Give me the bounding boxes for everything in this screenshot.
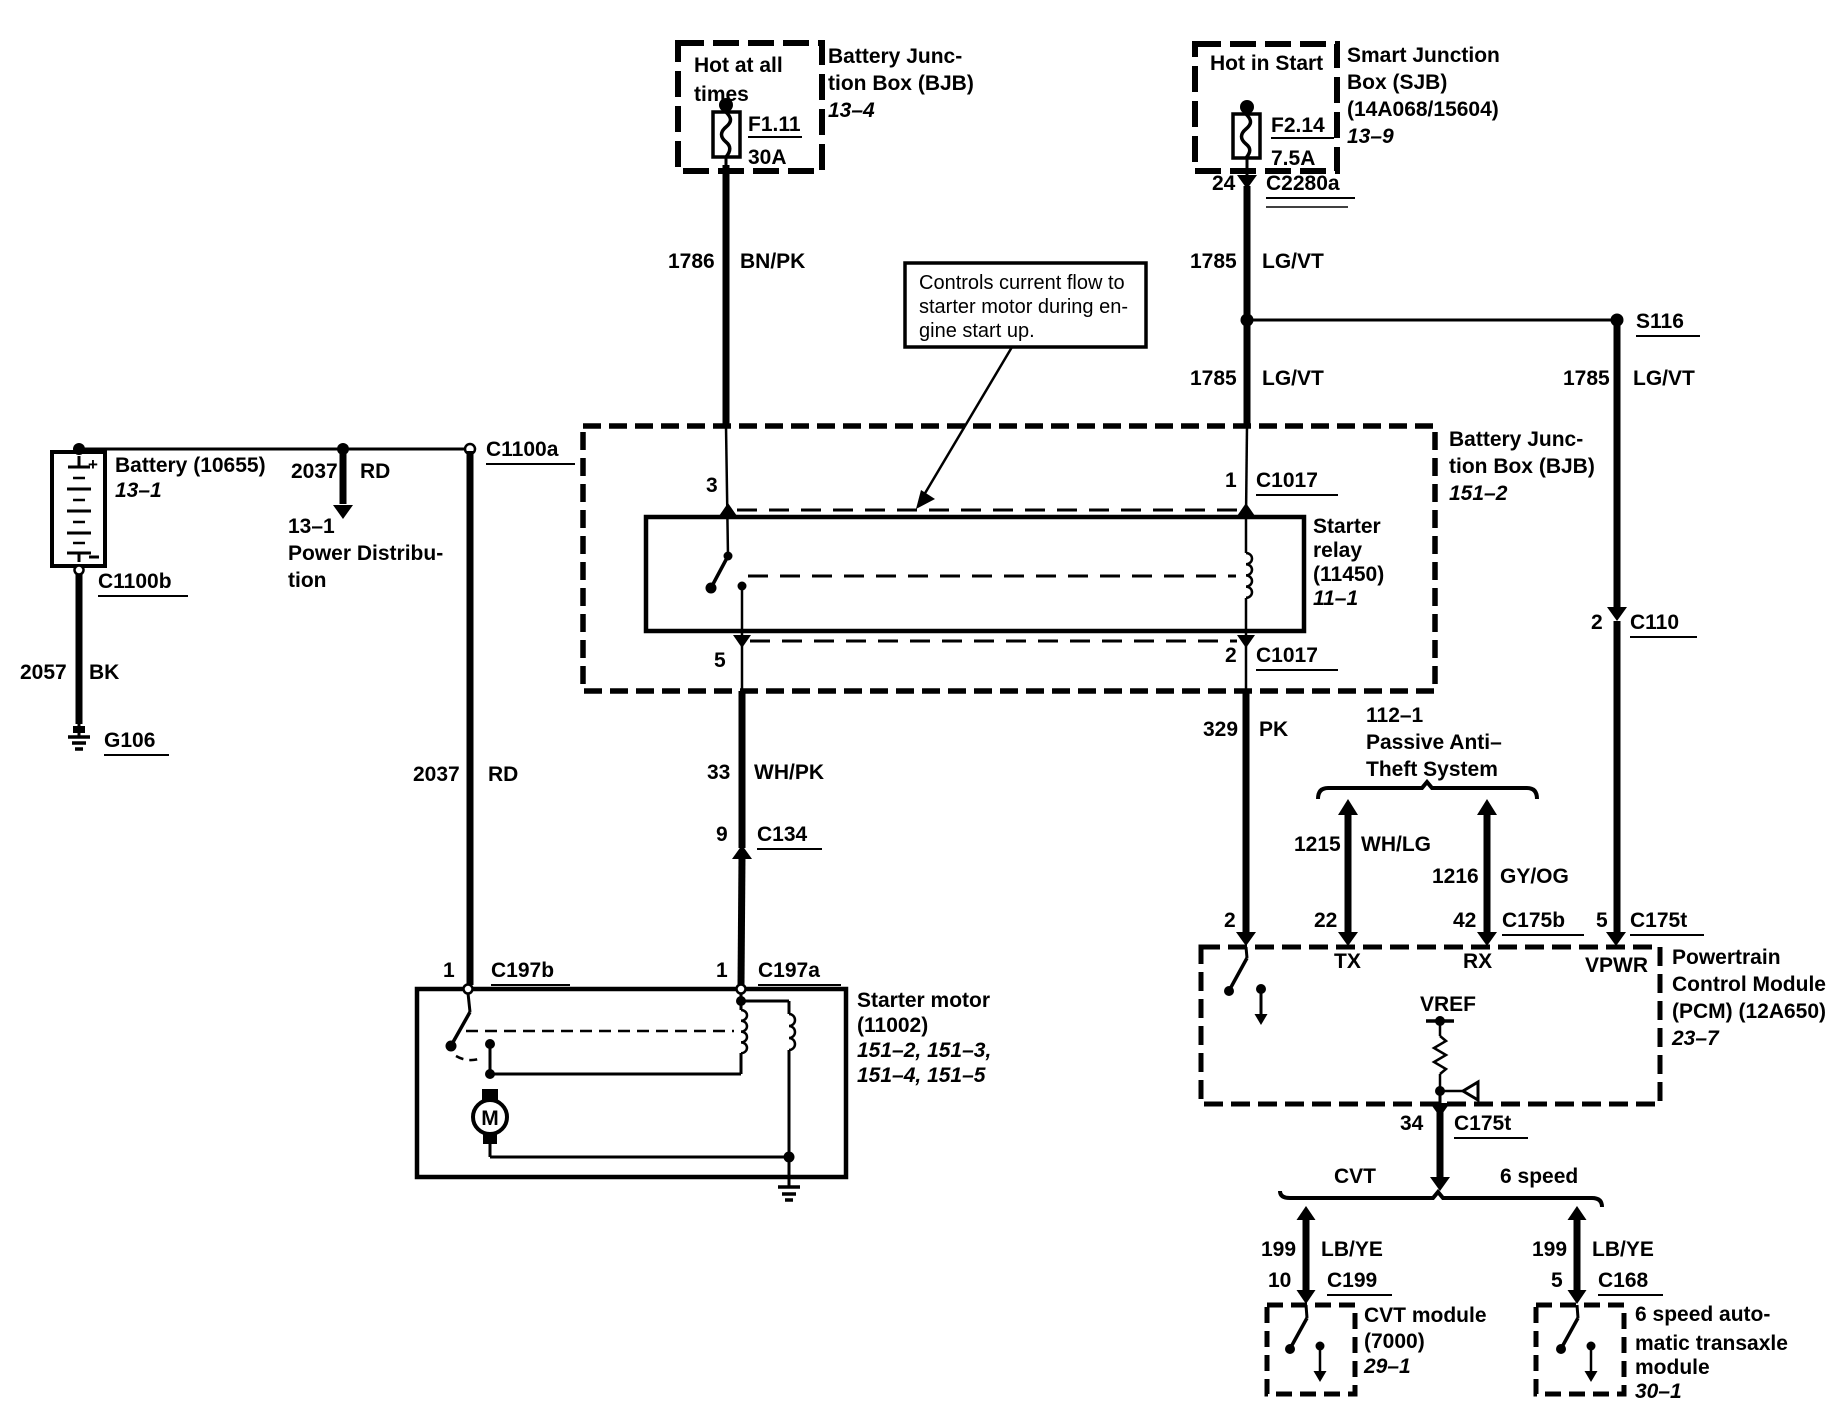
wire 33 WH/PK below BJB bbox=[739, 691, 746, 848]
svg-text:C175b: C175b bbox=[1502, 909, 1565, 932]
pin 2 arrow bbox=[1237, 635, 1255, 648]
svg-text:matic transaxle: matic transaxle bbox=[1635, 1332, 1788, 1355]
6 speed module plunger arrow bbox=[1585, 1342, 1598, 1383]
component box Battery Junction Box (BJB) 151-2 bbox=[583, 426, 1435, 691]
wire battery top horizontal to C1100a bbox=[79, 448, 470, 451]
svg-text:S116: S116 bbox=[1636, 310, 1684, 333]
svg-text:LG/VT: LG/VT bbox=[1262, 250, 1324, 273]
svg-text:RD: RD bbox=[488, 763, 518, 786]
fuse box SJB (Hot in Start) bbox=[1195, 44, 1337, 171]
VREF node bar bbox=[1426, 1019, 1454, 1023]
svg-text:2: 2 bbox=[1225, 644, 1237, 667]
svg-text:2037: 2037 bbox=[291, 460, 338, 483]
svg-text:1: 1 bbox=[443, 959, 455, 982]
svg-text:module: module bbox=[1635, 1356, 1710, 1379]
svg-text:2037: 2037 bbox=[413, 763, 460, 786]
svg-text:42: 42 bbox=[1453, 909, 1476, 932]
node battery positive junction bbox=[73, 443, 85, 455]
connector C134 pin 9 arrow bbox=[732, 845, 752, 859]
wire 1785 LG/VT C110 to PCM VPWR bbox=[1614, 621, 1621, 938]
connector C110 pin 2 arrow bbox=[1607, 607, 1627, 621]
svg-text:9: 9 bbox=[716, 823, 728, 846]
svg-text:1216: 1216 bbox=[1432, 865, 1479, 888]
dashed actuation line starter bbox=[466, 1030, 734, 1033]
pin 3 arrow bbox=[719, 503, 737, 516]
svg-text:2: 2 bbox=[1591, 611, 1603, 634]
callout note box bbox=[905, 263, 1146, 347]
wire pin 2 to BJB edge bbox=[1245, 631, 1248, 691]
svg-text:Box (SJB): Box (SJB) bbox=[1347, 71, 1447, 94]
solenoid hold-in coil bbox=[789, 1001, 795, 1157]
pin 1 arrow bbox=[1237, 503, 1255, 516]
svg-text:329: 329 bbox=[1203, 718, 1238, 741]
svg-text:Theft System: Theft System bbox=[1366, 758, 1498, 781]
svg-text:30–1: 30–1 bbox=[1635, 1380, 1682, 1403]
svg-text:2: 2 bbox=[1224, 909, 1236, 932]
resistor VREF pull-up bbox=[1434, 1021, 1446, 1091]
svg-text:+: + bbox=[88, 455, 98, 474]
connector C1100b bbox=[75, 566, 84, 575]
wire switch to motor node bbox=[489, 1044, 492, 1074]
svg-text:relay: relay bbox=[1313, 539, 1362, 562]
svg-text:tion Box (BJB): tion Box (BJB) bbox=[1449, 455, 1595, 478]
svg-text:tion: tion bbox=[288, 569, 326, 592]
svg-text:1: 1 bbox=[716, 959, 728, 982]
svg-text:1: 1 bbox=[1225, 469, 1237, 492]
wire pin 3 into relay bbox=[726, 426, 728, 556]
wire 2057 BK battery negative bbox=[76, 574, 83, 724]
svg-text:TX: TX bbox=[1334, 950, 1361, 973]
component box Powertrain Control Module (PCM) bbox=[1201, 947, 1660, 1104]
svg-text:112–1: 112–1 bbox=[1366, 704, 1424, 727]
ground starter motor case bbox=[778, 1187, 800, 1200]
svg-text:LB/YE: LB/YE bbox=[1321, 1238, 1383, 1261]
svg-text:CVT: CVT bbox=[1334, 1165, 1376, 1188]
PCM internal switch contact bbox=[1224, 947, 1247, 996]
svg-text:Controls current flow to: Controls current flow to bbox=[919, 272, 1125, 294]
wire pin 1 into relay bbox=[1246, 426, 1247, 517]
wire motor node to coil 1 bbox=[490, 1073, 741, 1076]
fuse box BJB (Hot at all times) bbox=[678, 43, 822, 171]
svg-text:LB/YE: LB/YE bbox=[1592, 1238, 1654, 1261]
pin 34 arrow below PCM bbox=[1430, 1103, 1450, 1117]
svg-text:199: 199 bbox=[1261, 1238, 1296, 1261]
svg-text:6 speed: 6 speed bbox=[1500, 1165, 1578, 1188]
svg-text:Battery (10655): Battery (10655) bbox=[115, 454, 266, 477]
callout arrow to relay contact bbox=[921, 347, 1012, 500]
component box 6 speed automatic transaxle module 30-1 bbox=[1536, 1305, 1624, 1394]
svg-text:Smart Junction: Smart Junction bbox=[1347, 44, 1500, 67]
svg-text:C1017: C1017 bbox=[1256, 644, 1318, 667]
starter solenoid switch contact bbox=[446, 993, 483, 1060]
svg-text:5: 5 bbox=[1596, 909, 1608, 932]
wire 33 WH/PK to starter motor bbox=[741, 856, 742, 985]
svg-text:34: 34 bbox=[1400, 1112, 1424, 1135]
svg-text:Hot at all: Hot at all bbox=[694, 54, 783, 77]
svg-text:11–1: 11–1 bbox=[1313, 587, 1358, 610]
svg-text:BK: BK bbox=[89, 661, 119, 684]
node 2037 branch junction bbox=[337, 443, 349, 455]
svg-text:(14A068/15604): (14A068/15604) bbox=[1347, 98, 1499, 121]
svg-text:13–9: 13–9 bbox=[1347, 125, 1394, 148]
svg-text:C168: C168 bbox=[1598, 1269, 1649, 1292]
dashed connector row top (3 to 1) bbox=[737, 509, 1237, 512]
6 speed module internal switch bbox=[1556, 1305, 1578, 1354]
svg-text:151–2, 151–3,: 151–2, 151–3, bbox=[857, 1039, 991, 1062]
fuse F1.11 30A bbox=[713, 112, 740, 157]
solenoid pull-in coil bbox=[741, 993, 747, 1074]
svg-text:(11450): (11450) bbox=[1313, 563, 1384, 586]
node fuse F1.11 top bbox=[719, 98, 733, 112]
svg-text:C2280a: C2280a bbox=[1266, 172, 1340, 195]
motor M bbox=[473, 1089, 507, 1144]
wire 1785 LG/VT SJB to BJB bbox=[1244, 186, 1251, 428]
pin 5 arrow bbox=[733, 635, 751, 648]
svg-text:C134: C134 bbox=[757, 823, 808, 846]
svg-text:6 speed auto-: 6 speed auto- bbox=[1635, 1303, 1770, 1326]
node C197b entry bbox=[464, 985, 473, 994]
svg-text:Power Distribu-: Power Distribu- bbox=[288, 542, 443, 565]
svg-text:C1017: C1017 bbox=[1256, 469, 1318, 492]
svg-text:(11002): (11002) bbox=[857, 1014, 928, 1037]
buzzer symbol bbox=[1440, 1090, 1463, 1093]
svg-text:WH/PK: WH/PK bbox=[754, 761, 824, 784]
PCM internal plunger arrow bbox=[1255, 984, 1268, 1025]
svg-text:24: 24 bbox=[1212, 172, 1236, 195]
ground G106 bbox=[68, 724, 90, 749]
svg-text:(PCM) (12A650): (PCM) (12A650) bbox=[1672, 1000, 1826, 1023]
wire 2037 RD stub arrow to power distribution bbox=[340, 449, 347, 504]
wire 199 LB/YE 6 speed branch bbox=[1568, 1206, 1587, 1220]
node S116 branch junction bbox=[1241, 314, 1254, 327]
bracket PATS overbrace bbox=[1318, 782, 1537, 799]
VPWR arrow into PCM bbox=[1606, 932, 1626, 946]
bracket transmission variants bbox=[1280, 1191, 1602, 1207]
svg-text:Control Module: Control Module bbox=[1672, 973, 1826, 996]
wire 1786 BN/PK fuse F1.11 to BJB bbox=[725, 157, 728, 171]
svg-text:LG/VT: LG/VT bbox=[1262, 367, 1324, 390]
svg-text:C175t: C175t bbox=[1454, 1112, 1511, 1135]
relay starter relay (11450) 11-1 body bbox=[646, 517, 1304, 631]
svg-text:22: 22 bbox=[1314, 909, 1337, 932]
wire pin 5 to BJB edge bbox=[741, 645, 744, 691]
node solenoid top junction bbox=[736, 996, 746, 1006]
svg-text:RD: RD bbox=[360, 460, 390, 483]
svg-text:C175t: C175t bbox=[1630, 909, 1687, 932]
svg-text:F1.11: F1.11 bbox=[748, 113, 801, 136]
CVT module internal switch bbox=[1285, 1305, 1307, 1354]
wire VREF through PCM edge bbox=[1439, 1091, 1442, 1108]
node S116 bbox=[1611, 314, 1624, 327]
svg-text:33: 33 bbox=[707, 761, 730, 784]
node fuse F2.14 top bbox=[1240, 100, 1254, 114]
svg-text:1785: 1785 bbox=[1190, 250, 1237, 273]
battery BAT (10655) bbox=[52, 452, 105, 566]
node switch output dot bbox=[485, 1039, 495, 1049]
svg-text:5: 5 bbox=[714, 649, 726, 672]
svg-text:VPWR: VPWR bbox=[1585, 954, 1648, 977]
pin 2 arrow into PCM bbox=[1236, 932, 1256, 946]
dashed actuation line relay middle bbox=[748, 575, 1236, 578]
svg-text:Battery Junc-: Battery Junc- bbox=[1449, 428, 1583, 451]
wire 2037 RD C1100a to starter motor bbox=[467, 451, 474, 985]
svg-text:151–2: 151–2 bbox=[1449, 482, 1508, 505]
svg-text:gine start up.: gine start up. bbox=[919, 320, 1035, 342]
svg-text:13–4: 13–4 bbox=[828, 99, 875, 122]
wire motor to ground bus bbox=[489, 1144, 492, 1157]
svg-text:1786: 1786 bbox=[668, 250, 715, 273]
svg-text:13–1: 13–1 bbox=[115, 479, 162, 502]
svg-text:2057: 2057 bbox=[20, 661, 67, 684]
wire 34 C175t stub bbox=[1437, 1112, 1444, 1180]
svg-text:13–1: 13–1 bbox=[288, 515, 335, 538]
svg-text:WH/LG: WH/LG bbox=[1361, 833, 1431, 856]
svg-text:PK: PK bbox=[1259, 718, 1288, 741]
svg-text:LG/VT: LG/VT bbox=[1633, 367, 1695, 390]
svg-text:C1100a: C1100a bbox=[486, 438, 559, 461]
component box starter motor (11002) bbox=[417, 989, 846, 1177]
svg-text:RX: RX bbox=[1463, 950, 1492, 973]
node motor top junction bbox=[485, 1069, 495, 1079]
svg-text:3: 3 bbox=[706, 474, 718, 497]
node VREF output junction bbox=[1435, 1086, 1445, 1096]
node ground junction bbox=[784, 1152, 795, 1163]
svg-text:Passive Anti–: Passive Anti– bbox=[1366, 731, 1502, 754]
wire 1785 LG/VT S116 down branch bbox=[1614, 320, 1621, 612]
wire to hold coil bbox=[741, 1000, 789, 1003]
component box CVT module (7000) 29-1 bbox=[1267, 1305, 1355, 1394]
svg-text:GY/OG: GY/OG bbox=[1500, 865, 1569, 888]
svg-text:1215: 1215 bbox=[1294, 833, 1341, 856]
svg-text:Battery Junc-: Battery Junc- bbox=[828, 45, 962, 68]
svg-text:29–1: 29–1 bbox=[1363, 1355, 1411, 1378]
svg-text:starter motor during en-: starter motor during en- bbox=[919, 296, 1128, 318]
svg-text:10: 10 bbox=[1268, 1269, 1291, 1292]
dashed connector row bottom (5 to 2) bbox=[750, 640, 1237, 643]
svg-text:C197a: C197a bbox=[758, 959, 820, 982]
wire to S116 splice bbox=[1247, 319, 1617, 322]
wire pin 5 inside relay bbox=[741, 586, 744, 640]
svg-text:C110: C110 bbox=[1630, 611, 1679, 634]
CVT module plunger arrow bbox=[1314, 1342, 1327, 1383]
relay coil bbox=[1246, 517, 1252, 631]
svg-text:M: M bbox=[481, 1107, 499, 1130]
node pin 5 branch dot bbox=[738, 582, 747, 591]
svg-text:151–4, 151–5: 151–4, 151–5 bbox=[857, 1064, 986, 1087]
svg-text:C197b: C197b bbox=[491, 959, 554, 982]
wire 1216 GY/OG RX arrow bbox=[1484, 808, 1491, 938]
wire 1215 WH/LG TX arrow bbox=[1345, 808, 1352, 938]
svg-text:7.5A: 7.5A bbox=[1271, 147, 1315, 170]
svg-text:Hot in Start: Hot in Start bbox=[1210, 52, 1323, 75]
svg-text:(7000): (7000) bbox=[1364, 1330, 1425, 1353]
wire 199 LB/YE CVT branch bbox=[1297, 1206, 1316, 1220]
wire to case ground bbox=[788, 1157, 791, 1186]
svg-text:Starter: Starter bbox=[1313, 515, 1381, 538]
svg-text:tion Box (BJB): tion Box (BJB) bbox=[828, 72, 974, 95]
svg-text:VREF: VREF bbox=[1420, 993, 1476, 1016]
svg-text:BN/PK: BN/PK bbox=[740, 250, 805, 273]
connector C1100a bbox=[465, 444, 475, 454]
fuse F2.14 7.5A bbox=[1233, 114, 1260, 158]
svg-text:G106: G106 bbox=[104, 729, 155, 752]
node C197a entry bbox=[737, 985, 746, 994]
svg-text:Starter motor: Starter motor bbox=[857, 989, 990, 1012]
svg-text:C1100b: C1100b bbox=[98, 570, 172, 593]
svg-text:1785: 1785 bbox=[1563, 367, 1610, 390]
svg-text:30A: 30A bbox=[748, 146, 787, 169]
wire 329 PK BJB to PCM bbox=[1243, 691, 1250, 937]
svg-text:C199: C199 bbox=[1327, 1269, 1377, 1292]
svg-text:CVT module: CVT module bbox=[1364, 1304, 1487, 1327]
svg-text:1785: 1785 bbox=[1190, 367, 1237, 390]
pin 24 connector C2280a arrow bbox=[1246, 158, 1249, 175]
svg-text:5: 5 bbox=[1551, 1269, 1563, 1292]
svg-text:F2.14: F2.14 bbox=[1271, 114, 1325, 137]
svg-text:23–7: 23–7 bbox=[1671, 1027, 1720, 1050]
relay switch contact bbox=[706, 552, 733, 594]
svg-text:Powertrain: Powertrain bbox=[1672, 946, 1781, 969]
svg-text:199: 199 bbox=[1532, 1238, 1567, 1261]
